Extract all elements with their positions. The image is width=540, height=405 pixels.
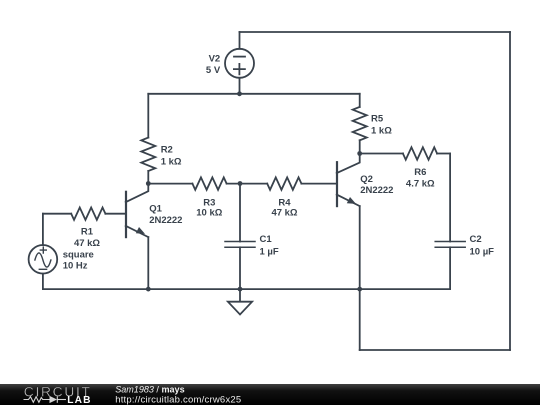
- svg-text:47 kΩ: 47 kΩ: [271, 208, 297, 219]
- resistor R6: [403, 147, 437, 159]
- resistor R4: [267, 177, 301, 189]
- wire C2 top lead: [449, 154, 451, 242]
- svg-text:1 kΩ: 1 kΩ: [161, 157, 182, 168]
- node Q1 collector junction: [146, 181, 151, 186]
- svg-text:10 µF: 10 µF: [470, 247, 495, 258]
- wire R5 top lead: [359, 94, 361, 107]
- svg-text:square: square: [63, 250, 94, 261]
- wire V1 top lead: [42, 214, 44, 245]
- source V1 square 10 Hz: [29, 245, 58, 274]
- svg-text:1 kΩ: 1 kΩ: [371, 126, 392, 137]
- resistor R3: [192, 177, 226, 189]
- wire V2 bottom lead: [239, 78, 241, 94]
- svg-text:1 µF: 1 µF: [260, 247, 279, 258]
- transistor Q1: [126, 184, 149, 238]
- svg-text:R6: R6: [414, 167, 426, 178]
- svg-text:http://circuitlab.com/crw6x25: http://circuitlab.com/crw6x25: [115, 395, 241, 405]
- wire V2 top lead: [239, 32, 241, 49]
- resistor R2: [141, 138, 155, 171]
- wire R6 to C2: [437, 153, 450, 155]
- svg-text:10 Hz: 10 Hz: [63, 261, 88, 272]
- wire V1 bottom lead: [42, 274, 44, 290]
- svg-text:R1: R1: [81, 227, 94, 238]
- svg-text:Q1: Q1: [149, 204, 162, 215]
- capacitor C1: [225, 184, 255, 290]
- node V2-supply junction: [237, 91, 242, 96]
- wire supply rail: [148, 93, 359, 95]
- node Q1 emitter-ground: [146, 287, 151, 292]
- svg-text:Sam1983 / mays: Sam1983 / mays: [115, 384, 184, 394]
- svg-text:C2: C2: [470, 234, 482, 245]
- wire V1 to R1: [43, 213, 71, 215]
- svg-text:4.7 kΩ: 4.7 kΩ: [406, 179, 435, 190]
- svg-text:2N2222: 2N2222: [149, 215, 182, 226]
- svg-text:LAB: LAB: [67, 395, 92, 405]
- voltage source V2: [225, 49, 254, 78]
- svg-text:47 kΩ: 47 kΩ: [74, 238, 100, 249]
- wire node to R6: [360, 153, 403, 155]
- wire R2 top lead: [147, 94, 149, 138]
- wire R4 to Q2 base: [301, 183, 336, 185]
- node C1-ground: [238, 287, 243, 292]
- node Q2 collector junction: [357, 151, 362, 156]
- svg-text:2N2222: 2N2222: [360, 185, 393, 196]
- wire ground rail: [43, 288, 360, 290]
- svg-text:Q2: Q2: [360, 174, 373, 185]
- wire collector node to R3: [148, 183, 192, 185]
- resistor R1: [71, 208, 105, 220]
- wire R3 to R4: [227, 183, 268, 185]
- wire Q2 emitter lead: [359, 206, 361, 350]
- wire R1 to Q1 base: [105, 213, 125, 215]
- transistor Q2: [337, 154, 360, 207]
- wire Q1 emitter lead: [147, 237, 149, 289]
- svg-text:R5: R5: [371, 114, 384, 125]
- resistor R5: [353, 107, 367, 140]
- node Q2 emitter-ground: [357, 287, 362, 292]
- node C1 tap: [238, 181, 243, 186]
- logo wire with resistor and diode: [24, 396, 67, 403]
- capacitor C2: [435, 242, 465, 290]
- svg-text:10 kΩ: 10 kΩ: [196, 208, 222, 219]
- ground: [228, 289, 252, 314]
- wire bottom return: [360, 349, 510, 351]
- wire top rail: [240, 31, 511, 33]
- svg-text:C1: C1: [260, 234, 273, 245]
- wire R2 bottom lead: [147, 171, 149, 184]
- svg-text:V2: V2: [209, 54, 221, 65]
- svg-text:R2: R2: [161, 145, 173, 156]
- svg-text:5 V: 5 V: [206, 65, 221, 76]
- wire right side: [509, 32, 511, 350]
- wire R5 bottom lead: [359, 140, 361, 153]
- wire C2 bottom to ground node: [360, 288, 450, 290]
